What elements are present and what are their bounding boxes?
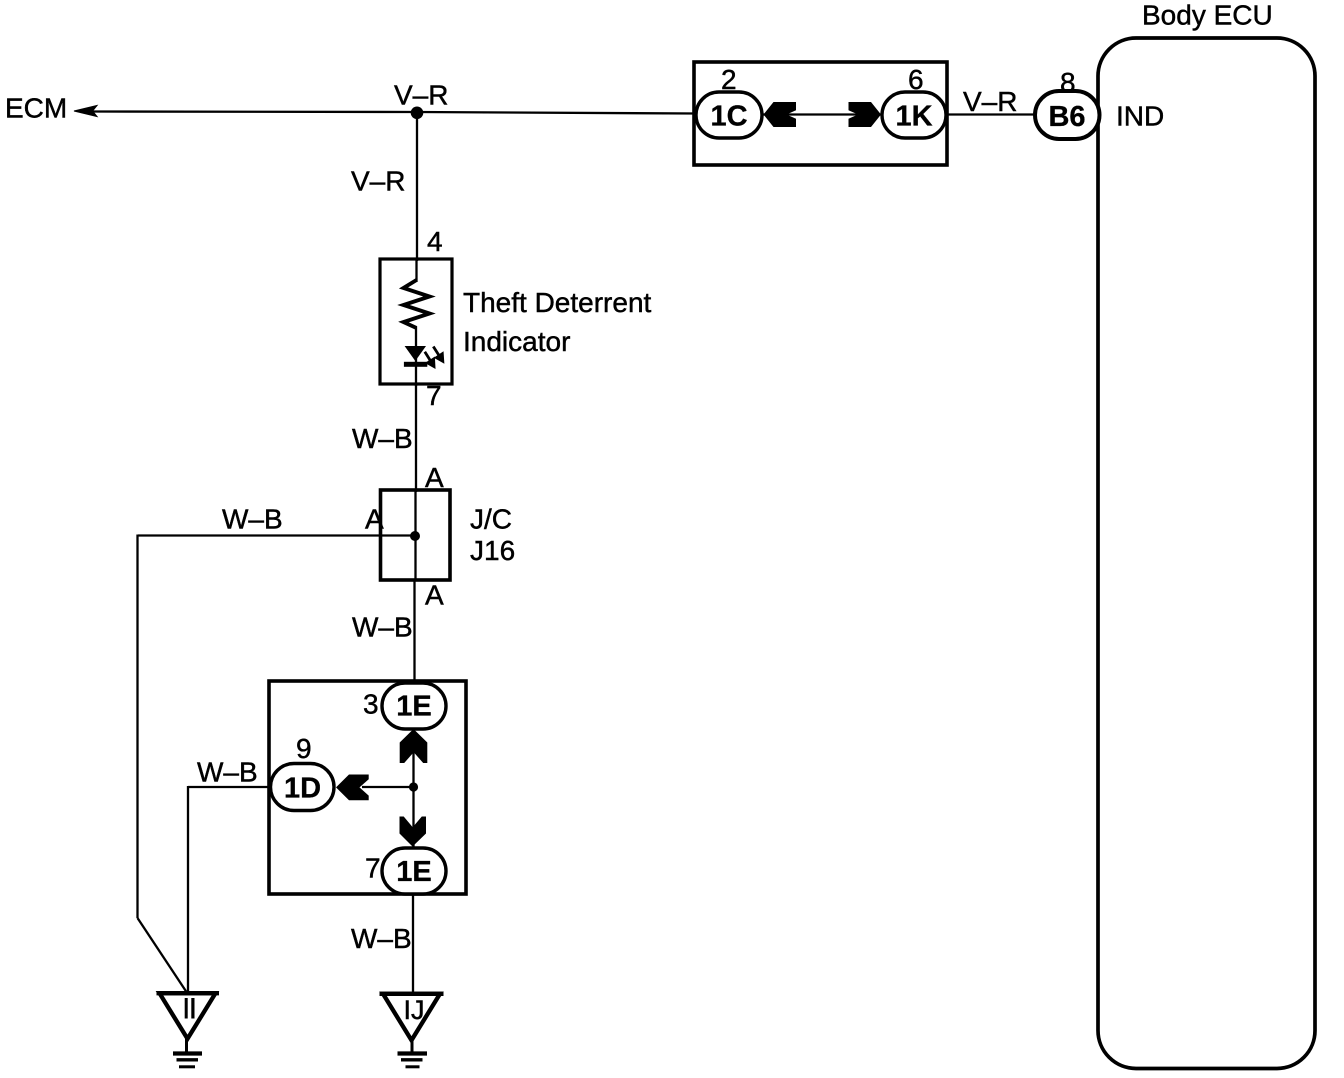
svg-text:2: 2 xyxy=(721,64,737,95)
svg-text:4: 4 xyxy=(427,226,443,257)
svg-text:W–B: W–B xyxy=(197,757,258,788)
svg-text:W–B: W–B xyxy=(352,612,413,643)
svg-text:8: 8 xyxy=(1060,67,1076,98)
svg-text:1E: 1E xyxy=(396,691,431,723)
svg-text:A: A xyxy=(425,580,444,611)
svg-text:W–B: W–B xyxy=(352,423,413,454)
svg-text:J16: J16 xyxy=(470,535,515,566)
svg-text:IJ: IJ xyxy=(403,995,424,1025)
svg-text:W–B: W–B xyxy=(351,923,412,954)
svg-text:ECM: ECM xyxy=(5,93,67,124)
svg-text:3: 3 xyxy=(363,689,379,720)
svg-text:W–B: W–B xyxy=(222,504,283,535)
svg-text:Body ECU: Body ECU xyxy=(1142,0,1273,31)
svg-text:7: 7 xyxy=(365,853,381,884)
svg-text:Indicator: Indicator xyxy=(463,326,570,357)
svg-text:1E: 1E xyxy=(396,856,431,888)
svg-text:A: A xyxy=(365,504,384,535)
svg-text:6: 6 xyxy=(908,64,924,95)
svg-text:1C: 1C xyxy=(710,101,747,133)
svg-text:J/C: J/C xyxy=(470,504,512,535)
svg-text:1K: 1K xyxy=(895,101,932,133)
svg-text:IND: IND xyxy=(1116,101,1164,132)
svg-text:V–R: V–R xyxy=(394,80,448,111)
svg-text:V–R: V–R xyxy=(963,86,1017,117)
svg-text:1D: 1D xyxy=(284,773,321,805)
svg-text:9: 9 xyxy=(296,733,312,764)
svg-text:7: 7 xyxy=(426,380,442,411)
svg-text:A: A xyxy=(425,462,444,493)
svg-text:Theft Deterrent: Theft Deterrent xyxy=(463,287,652,318)
svg-text:V–R: V–R xyxy=(351,166,405,197)
svg-text:B6: B6 xyxy=(1048,101,1085,133)
